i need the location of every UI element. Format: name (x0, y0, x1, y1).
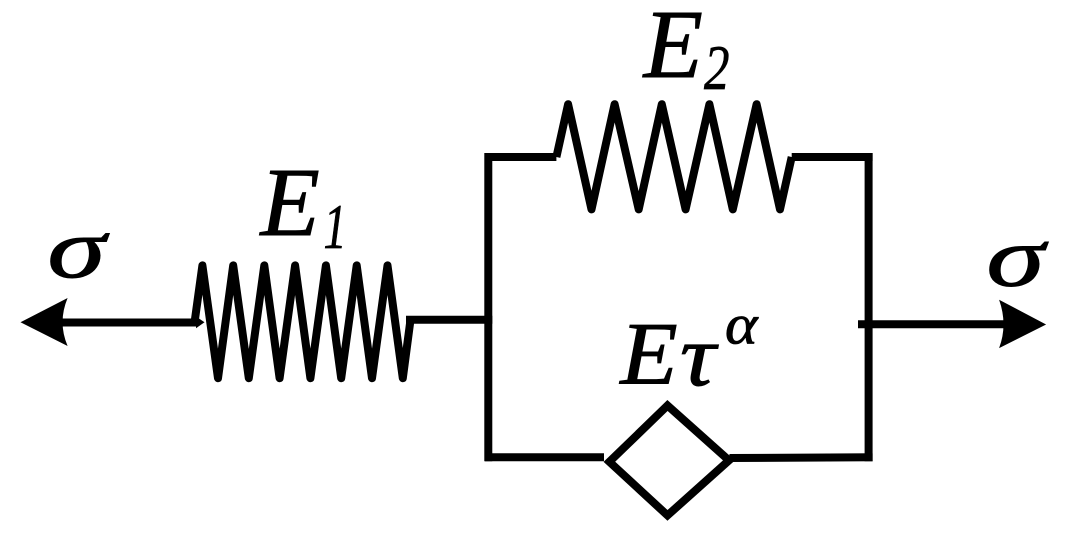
svg-text:τ: τ (680, 307, 719, 404)
svg-text:σ: σ (47, 203, 110, 296)
svg-text:E: E (642, 0, 703, 98)
svg-text:1: 1 (324, 191, 347, 262)
svg-text:2: 2 (704, 33, 730, 103)
svg-text:E: E (259, 149, 320, 256)
svg-text:σ: σ (986, 212, 1049, 305)
svg-text:α: α (725, 294, 759, 357)
svg-text:E: E (618, 304, 677, 403)
